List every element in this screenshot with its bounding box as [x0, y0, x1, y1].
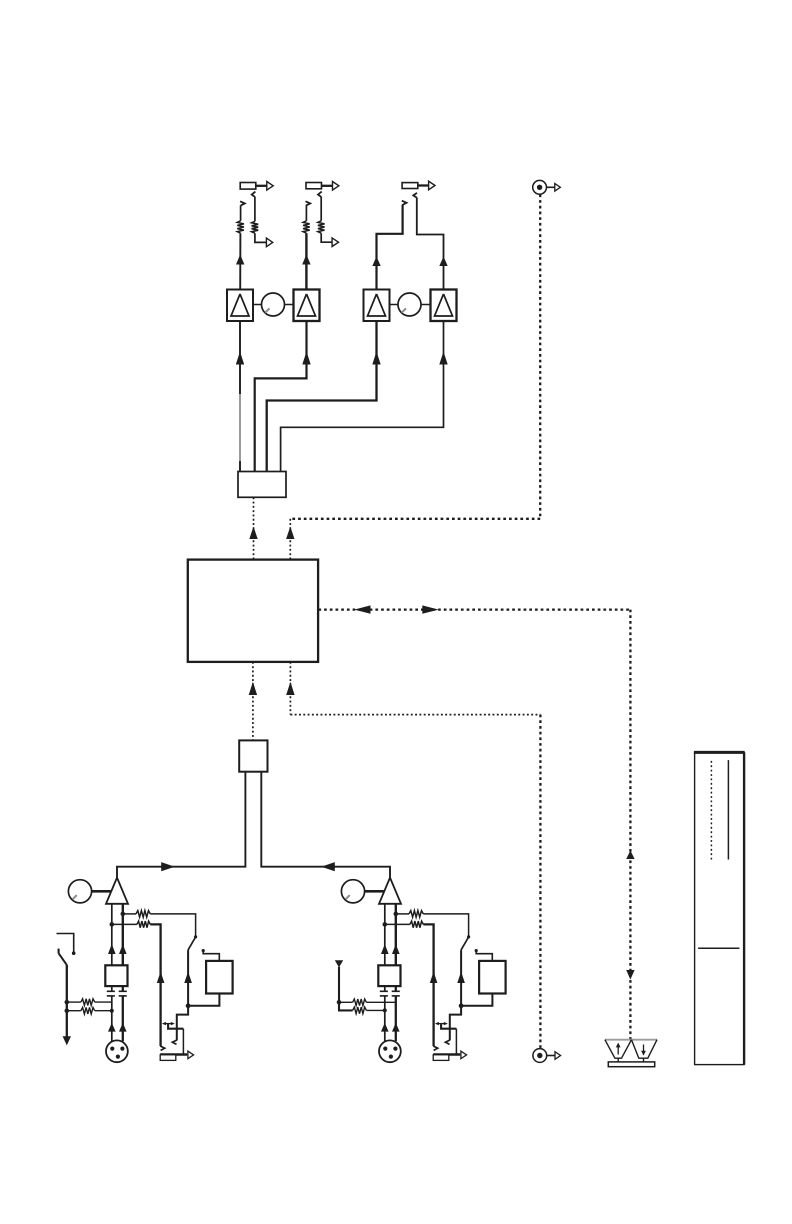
wire — [339, 967, 353, 1011]
wire — [150, 924, 160, 1046]
wire — [111, 986, 113, 991]
flow arrow — [119, 944, 127, 954]
preamp A1 — [106, 878, 128, 904]
main board MB — [188, 560, 318, 662]
resistor R5 — [81, 999, 95, 1006]
wire — [67, 1001, 81, 1003]
connector CN2 — [239, 740, 267, 771]
switch SW2 — [461, 935, 470, 950]
wire — [455, 1029, 457, 1055]
jack J2 plug arrow — [333, 182, 339, 191]
preamp A2 — [379, 878, 401, 904]
wire — [423, 924, 433, 1046]
flow arrow — [321, 862, 335, 871]
wire — [187, 950, 189, 1006]
ground arrow — [63, 1036, 71, 1045]
flow arrow — [422, 605, 438, 613]
jack JK1 tip contact — [160, 1046, 165, 1050]
wire — [261, 772, 390, 878]
wire — [384, 996, 386, 1041]
junction — [110, 922, 115, 927]
jack J3 body — [402, 183, 429, 189]
flow arrow — [626, 970, 634, 980]
connector RCA1 — [533, 180, 556, 194]
wire — [450, 1006, 461, 1040]
tape head arrows — [616, 1043, 646, 1056]
jack JK1 plug arrow — [188, 1051, 194, 1059]
wire — [366, 1008, 386, 1012]
jack J2 body — [306, 183, 333, 189]
junction — [337, 1000, 342, 1005]
jack J2 ring contact — [318, 192, 322, 197]
tape deck base — [608, 1058, 654, 1067]
wire — [384, 903, 386, 965]
connector RCA2 — [533, 1049, 555, 1063]
wire — [321, 233, 333, 242]
jack J5 (ext spkr B) arrow — [332, 238, 338, 247]
connector XLR2 — [379, 1040, 401, 1062]
flow arrow — [108, 944, 116, 954]
flow arrow — [119, 1023, 127, 1032]
wire — [390, 304, 399, 306]
jack J4 (ext spkr A) arrow — [266, 238, 272, 247]
wire — [239, 321, 241, 472]
wire — [67, 1010, 81, 1012]
wire — [255, 321, 307, 472]
wire — [66, 965, 68, 1037]
flow arrow — [372, 352, 380, 365]
junction — [65, 1008, 70, 1013]
flow arrow — [439, 257, 447, 267]
flow arrow — [392, 1023, 400, 1032]
contact link — [435, 1022, 448, 1025]
flow arrow — [249, 682, 257, 695]
volume pot VR1 — [262, 293, 285, 316]
box B1 — [206, 961, 233, 994]
wire (faded) — [239, 394, 241, 461]
wire — [202, 949, 220, 961]
wire — [122, 996, 124, 1041]
junction — [186, 1003, 191, 1008]
power amp U2 — [294, 290, 320, 322]
resistor R1 — [237, 221, 244, 233]
wire — [239, 233, 241, 289]
junction — [121, 912, 126, 917]
connector XLR1 — [106, 1040, 128, 1062]
jack JK1 body — [160, 1055, 187, 1061]
resistor R2 — [252, 221, 259, 233]
wire — [281, 321, 444, 472]
wire — [366, 1001, 395, 1003]
tape loop (dotted) — [629, 610, 631, 1040]
wire — [117, 772, 245, 878]
resistor R2b — [410, 921, 423, 928]
panel divider — [698, 947, 739, 949]
flow arrow — [157, 972, 165, 984]
gain pot VR2 — [341, 880, 364, 903]
tape deck heads — [605, 1040, 657, 1059]
jack J1 ring contact — [252, 192, 256, 197]
transformer T1 — [105, 965, 127, 986]
flow arrow — [372, 257, 380, 267]
flow arrow — [457, 972, 465, 984]
speaker column panel — [694, 752, 745, 1064]
wire — [188, 994, 219, 1006]
flow arrow — [381, 944, 389, 954]
wire — [320, 197, 322, 221]
resistor R1a — [136, 911, 150, 918]
wire — [417, 197, 444, 289]
wire — [305, 205, 307, 220]
cable (dotted) — [290, 662, 540, 1049]
wire — [365, 890, 385, 893]
resistor R8 — [353, 1007, 367, 1014]
wire — [285, 304, 294, 306]
flow arrow — [236, 255, 244, 265]
jack J1 tip contact — [240, 201, 245, 205]
jack J2 tip contact — [306, 201, 311, 205]
wire — [253, 304, 262, 306]
cable (dotted) — [253, 497, 255, 558]
capacitor C2a — [380, 991, 388, 996]
jack J3 tip contact — [402, 201, 407, 205]
wire — [95, 1001, 112, 1003]
switch SW1 — [188, 935, 197, 950]
wire — [339, 1001, 353, 1003]
wire — [395, 986, 397, 991]
wire — [150, 914, 195, 937]
power amp U4 — [431, 290, 457, 322]
connector CN1 — [238, 472, 286, 498]
phantom switch SW3 — [57, 934, 76, 965]
wire — [461, 994, 492, 1006]
wire — [240, 205, 242, 220]
flow arrow — [439, 352, 447, 365]
junction — [383, 922, 388, 927]
wire — [441, 1024, 456, 1029]
panel slot (dotted) — [710, 761, 712, 860]
wire — [460, 950, 462, 1006]
panel slot — [727, 760, 729, 859]
flow arrow — [430, 972, 438, 984]
flow arrow — [108, 1023, 116, 1032]
wire — [112, 923, 137, 925]
wire — [182, 1029, 184, 1055]
wire — [267, 321, 377, 472]
wire — [122, 903, 124, 965]
wire — [395, 903, 397, 965]
connector RCA2 arrow — [555, 1052, 561, 1060]
gain pot VR1 — [68, 880, 91, 903]
transformer T2 — [378, 965, 400, 986]
wire — [475, 949, 493, 961]
power amp U1 — [227, 290, 253, 322]
capacitor C2b — [392, 991, 400, 996]
wire — [255, 233, 267, 242]
wire — [421, 304, 431, 306]
contact link — [162, 1022, 175, 1025]
power amp U3 — [364, 290, 390, 322]
resistor R1b — [137, 921, 150, 928]
flow arrow — [302, 352, 310, 365]
wire — [254, 197, 256, 222]
jack J3 ring contact — [413, 193, 417, 198]
flow arrow — [286, 682, 294, 695]
cable (dotted) — [252, 662, 254, 741]
flow arrow — [249, 527, 257, 540]
flow arrow — [236, 352, 244, 365]
wire — [305, 233, 307, 289]
connector RCA1 arrow — [555, 184, 561, 192]
volume pot VR2 — [398, 293, 421, 316]
wire — [168, 1024, 183, 1029]
resistor R2a — [409, 911, 423, 918]
flow arrow — [354, 605, 370, 613]
wire — [111, 996, 113, 1041]
wire — [377, 205, 403, 290]
flow arrow — [302, 255, 310, 265]
wire — [384, 986, 386, 991]
jack JK2 tip contact — [433, 1046, 438, 1050]
jack JK2 body — [433, 1055, 460, 1061]
jack JK2 ring contact — [445, 1040, 450, 1044]
wire — [95, 1009, 114, 1013]
wire — [111, 903, 113, 965]
wire — [92, 890, 112, 893]
cable (dotted) — [290, 519, 540, 559]
wire — [423, 914, 468, 937]
jack J3 plug arrow — [429, 181, 435, 190]
capacitor C1a — [107, 991, 115, 996]
jack JK2 plug arrow — [461, 1051, 467, 1059]
jack JK1 ring contact — [172, 1040, 177, 1044]
flow arrow — [161, 862, 175, 871]
junction — [394, 912, 399, 917]
wire — [177, 1006, 188, 1040]
tape loop (dotted) — [318, 608, 630, 610]
box B2 — [479, 961, 506, 994]
junction — [65, 1000, 70, 1005]
resistor R7 — [353, 999, 367, 1006]
resistor R3 — [303, 221, 310, 233]
flow arrow — [286, 527, 294, 540]
resistor R6 — [81, 1007, 95, 1014]
jack J1 plug arrow — [267, 182, 273, 191]
cable (dotted) — [539, 194, 541, 518]
jack J1 body — [240, 183, 267, 190]
capacitor C1b — [119, 991, 127, 996]
flow arrow — [626, 851, 634, 860]
flow arrow — [392, 944, 400, 954]
wire — [385, 923, 410, 925]
resistor R4 — [318, 221, 325, 233]
junction — [459, 1003, 464, 1008]
wire — [122, 986, 124, 991]
phantom feed arrow — [335, 960, 343, 967]
flow arrow — [381, 1023, 389, 1032]
flow arrow — [184, 972, 192, 984]
wire — [123, 913, 136, 915]
wire — [396, 913, 409, 915]
wire — [395, 996, 397, 1041]
